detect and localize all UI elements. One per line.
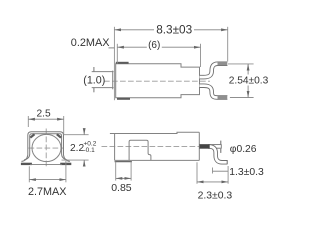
clip tab bottom (side) [117, 98, 130, 100]
extension line 0.85 right [130, 162, 132, 181]
svg-text:2.5: 2.5 [37, 109, 51, 120]
label 8.3±0.3 [154, 22, 194, 36]
extension line 2.3 left [196, 162, 198, 183]
clip bottom seating line [30, 164, 62, 166]
svg-text:(1.0): (1.0) [83, 74, 105, 86]
lead exit dark bar [199, 144, 209, 148]
svg-text:φ0.26: φ0.26 [230, 144, 257, 155]
clip foot right [60, 163, 71, 165]
svg-text:2.7MAX: 2.7MAX [28, 186, 66, 198]
dimension 2.2 arrow upper [83, 129, 85, 135]
protrusion dim tick upper [93, 67, 95, 72]
extension line 2.2 bottom [62, 159, 89, 161]
body outline (holder) top view [116, 64, 200, 98]
centerline side view [102, 146, 221, 148]
side view bottom edge [115, 159, 200, 161]
extension line 2.7 right [65, 161, 67, 183]
clip corner tab right [57, 134, 61, 137]
svg-text:2.54±0.3: 2.54±0.3 [229, 76, 269, 87]
svg-text:1.3±0.3: 1.3±0.3 [229, 167, 264, 178]
dimension line 2.7 [29, 179, 66, 181]
extension line 2.3 right [227, 166, 229, 184]
crystal can circle [32, 134, 61, 161]
phi dim tick upper [220, 141, 222, 145]
side view top edge with overshoot and step [110, 132, 199, 133]
centerline vertical front view [45, 129, 47, 168]
extension line 0.85 left [115, 162, 117, 181]
lead upper (gull to top pad) [200, 64, 228, 77]
phi dim tick lower [220, 149, 222, 153]
dimension line 2.5 [28, 118, 63, 120]
dimension line 8.3 [114, 29, 227, 31]
dimension line (6) [117, 46, 200, 48]
svg-text:0.2MAX: 0.2MAX [71, 37, 110, 49]
clip tab top (side) [116, 62, 129, 64]
extension line 2.7 left [28, 166, 30, 182]
dimension line 2.54 [247, 64, 249, 98]
extension line 8.3 right [227, 27, 229, 62]
svg-text:0.85: 0.85 [111, 182, 132, 194]
label 2.54±0.3 [228, 75, 269, 87]
window cutout [129, 140, 151, 160]
crystal can left end face line [112, 71, 114, 90]
clip corner tab left [30, 134, 34, 137]
svg-text:8.3±03: 8.3±03 [156, 22, 192, 36]
lead foot tip cut [226, 160, 228, 164]
extension line 2.54 top [228, 63, 254, 65]
dimension line 2.3 [197, 181, 228, 183]
centerline top view [104, 80, 210, 82]
extension line 8.3 left / can face [113, 27, 115, 100]
label 2.5 [35, 109, 52, 120]
extension line 1.3 left [212, 168, 214, 174]
extension line 2.54 bottom [230, 97, 254, 99]
leader 0.2MAX [109, 47, 115, 49]
centerline horizontal front view [29, 147, 65, 149]
clip inner profile [24, 134, 67, 160]
svg-text:2.3±0.3: 2.3±0.3 [198, 191, 233, 202]
clip outer profile [21, 132, 70, 162]
extension line 2.5 left [27, 116, 29, 127]
can protrusion bottom edge [92, 87, 114, 89]
side view right edge [198, 132, 200, 160]
clip foot left [21, 163, 32, 165]
svg-text:-0.1: -0.1 [84, 147, 96, 154]
extension line (6)/body right [200, 44, 202, 67]
lead side view first wire bent down [199, 146, 227, 162]
side view left edge [114, 134, 116, 161]
dimension line 1.3 [213, 170, 229, 172]
dimension line 0.85 [116, 177, 131, 179]
can protrusion top edge [92, 71, 114, 73]
side view bottom doubled (foot) line [115, 161, 132, 163]
svg-text:(6): (6) [148, 40, 160, 51]
lead side view second wire [208, 144, 221, 149]
lead lower (gull to bottom pad) [200, 86, 228, 98]
svg-text:2.2: 2.2 [70, 143, 84, 154]
protrusion dim tick lower [93, 88, 95, 93]
extension line 2.2 top [64, 134, 89, 136]
extension line 2.5 right [63, 116, 65, 135]
extension line (6) left [116, 44, 118, 64]
label (6) [147, 39, 162, 51]
dimension 2.2 arrow lower [83, 160, 85, 166]
